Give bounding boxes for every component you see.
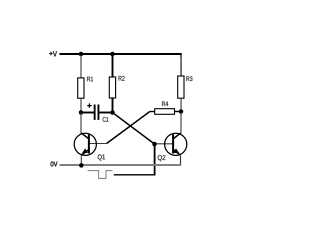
capacitor C1 plate left xyxy=(94,105,96,120)
wire R3 bottom lead xyxy=(180,98,182,111)
capacitor C1 polarity plus xyxy=(87,103,91,107)
resistor R1 xyxy=(78,78,84,98)
wire C1 left xyxy=(81,112,94,114)
wire R1 bottom lead xyxy=(80,98,82,112)
transistor Q2 xyxy=(165,133,187,156)
label C1 xyxy=(103,117,109,122)
wire trigger input to Q2 base xyxy=(154,145,156,176)
node junction dot Q1 emitter-0V xyxy=(79,163,84,168)
resistor R4 xyxy=(155,109,175,115)
wire C1 right xyxy=(99,112,112,114)
transistor Q1 xyxy=(74,133,96,156)
wire bottom 0V rail xyxy=(60,164,181,166)
node junction dot R1-C1 xyxy=(79,110,84,115)
wire Q2 emitter lead xyxy=(180,156,182,166)
wire R2 bottom lead xyxy=(112,98,114,113)
label Q1 xyxy=(98,154,105,160)
wire R4 left lead xyxy=(150,111,155,113)
wire Q1 base lead xyxy=(90,143,107,145)
wire R1 top lead xyxy=(80,55,82,78)
wire Q1 collector lead xyxy=(80,113,82,134)
wire Q2 collector lead xyxy=(180,113,182,134)
resistor R2 xyxy=(109,77,115,98)
label R4 xyxy=(162,101,168,106)
trigger pulse symbol xyxy=(88,171,113,179)
label R2 xyxy=(119,76,125,81)
label R3 xyxy=(186,76,192,81)
capacitor C1 plate right xyxy=(98,105,100,120)
wire cross-couple R4 to Q1 base xyxy=(107,112,150,144)
wire R3 top lead xyxy=(180,55,182,76)
node junction dot rail-R1 xyxy=(79,52,84,57)
resistor R3 xyxy=(178,76,184,98)
node junction dot R3-R4 xyxy=(179,109,184,114)
wire Q2 base lead xyxy=(155,143,173,145)
wire Q1 emitter lead xyxy=(80,156,82,166)
node junction dot C1-R2 xyxy=(110,110,115,115)
node junction dot rail-R2 xyxy=(110,52,115,57)
node 0V label xyxy=(51,162,58,167)
wire top +V rail xyxy=(60,54,182,57)
wire R2 top lead xyxy=(112,54,114,77)
node junction dot Q2 base xyxy=(152,142,157,147)
node +V label xyxy=(49,52,53,56)
label Q2 xyxy=(158,155,166,161)
wire cross-couple C1 node to Q2 base xyxy=(113,113,155,145)
wire R4 right lead xyxy=(175,111,182,113)
label R1 xyxy=(87,77,93,82)
